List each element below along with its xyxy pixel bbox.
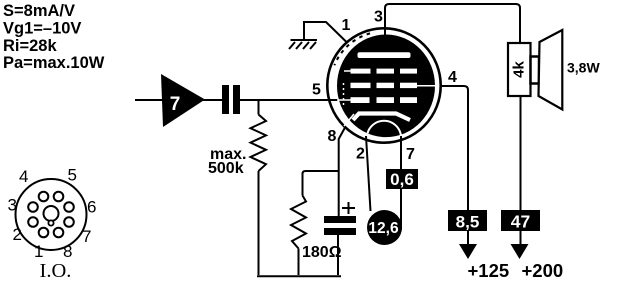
svg-text:Vg1=–10V: Vg1=–10V	[3, 20, 81, 38]
svg-text:Pa=max.10W: Pa=max.10W	[3, 54, 105, 72]
svg-text:4: 4	[19, 167, 28, 186]
svg-text:180Ω: 180Ω	[302, 244, 342, 261]
svg-text:8: 8	[328, 128, 337, 145]
svg-text:0,6: 0,6	[390, 170, 414, 189]
svg-text:3: 3	[8, 196, 17, 215]
svg-text:3,8W: 3,8W	[567, 60, 600, 76]
svg-text:3: 3	[374, 9, 383, 26]
svg-text:4k: 4k	[511, 61, 528, 78]
svg-text:+200: +200	[522, 260, 564, 281]
svg-text:7: 7	[82, 227, 91, 246]
svg-text:2: 2	[13, 225, 22, 244]
svg-text:6: 6	[87, 198, 96, 217]
svg-text:S=8mA/V: S=8mA/V	[3, 2, 75, 20]
svg-text:Ri=28k: Ri=28k	[3, 37, 57, 55]
svg-text:7: 7	[170, 94, 181, 115]
svg-text:8: 8	[63, 242, 72, 261]
svg-text:1: 1	[34, 242, 43, 261]
svg-text:4: 4	[448, 69, 457, 86]
svg-text:5: 5	[312, 82, 321, 99]
svg-text:47: 47	[511, 212, 530, 232]
svg-text:7: 7	[406, 146, 415, 163]
svg-text:+125: +125	[468, 260, 510, 281]
svg-text:12,6: 12,6	[368, 220, 399, 237]
svg-text:1: 1	[342, 17, 351, 34]
svg-text:5: 5	[68, 166, 77, 185]
svg-text:500k: 500k	[208, 160, 244, 177]
svg-text:8,5: 8,5	[456, 213, 480, 232]
svg-text:I.O.: I.O.	[40, 260, 72, 282]
svg-text:2: 2	[356, 146, 365, 163]
